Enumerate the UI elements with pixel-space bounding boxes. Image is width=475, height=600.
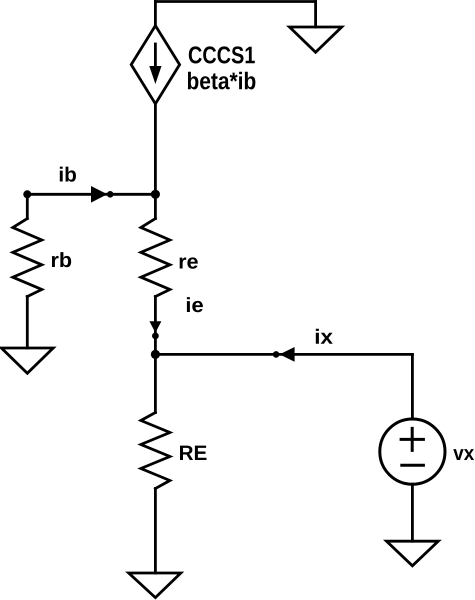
label RE bbox=[180, 446, 207, 460]
wire vx top lead bbox=[411, 354, 414, 419]
CCCS U1 diamond bbox=[131, 26, 179, 104]
wire ib horizontal bbox=[27, 193, 155, 196]
wire ix horizontal bbox=[155, 353, 412, 356]
node left of ib wire bbox=[23, 190, 31, 198]
wire re top lead bbox=[154, 194, 157, 218]
ground bottom bbox=[129, 573, 181, 598]
wire top horizontal bbox=[155, 0, 315, 3]
wire rb bottom lead bbox=[26, 297, 29, 349]
wire CCCS bottom to node B bbox=[154, 104, 157, 195]
vx plus sign bbox=[401, 428, 423, 450]
wire vx bottom lead bbox=[411, 484, 414, 541]
label vx bbox=[453, 449, 474, 460]
ground top-right bbox=[290, 27, 342, 52]
CCCS arrow head bbox=[149, 66, 161, 84]
label ix bbox=[316, 329, 333, 344]
label re bbox=[180, 257, 198, 268]
label CCCS1 bbox=[189, 46, 255, 63]
wire rb top lead bbox=[26, 194, 29, 218]
wire RE bottom lead bbox=[154, 489, 157, 574]
current arrow ib bbox=[91, 186, 107, 203]
vx minus sign bbox=[402, 464, 424, 467]
node B junction bbox=[151, 190, 160, 199]
current arrow ix bbox=[273, 351, 280, 358]
label ie bbox=[187, 297, 203, 312]
CCCS arrow shaft bbox=[154, 44, 157, 67]
resistor rb bbox=[13, 219, 42, 297]
label ib bbox=[60, 167, 76, 182]
label rb bbox=[52, 252, 71, 267]
label beta*ib bbox=[188, 72, 256, 90]
wire re bottom lead bbox=[154, 297, 157, 355]
wire RE top lead bbox=[154, 354, 157, 412]
ground right bbox=[387, 541, 439, 566]
wire top-right vertical bbox=[314, 2, 317, 28]
ground left bbox=[1, 348, 53, 373]
resistor re bbox=[141, 219, 170, 297]
resistor RE bbox=[141, 413, 170, 489]
voltage source vx circle bbox=[380, 419, 445, 484]
node E junction bbox=[151, 350, 160, 359]
wire top rail to CCCS apex bbox=[154, 2, 157, 26]
current arrow ie bbox=[149, 321, 161, 333]
